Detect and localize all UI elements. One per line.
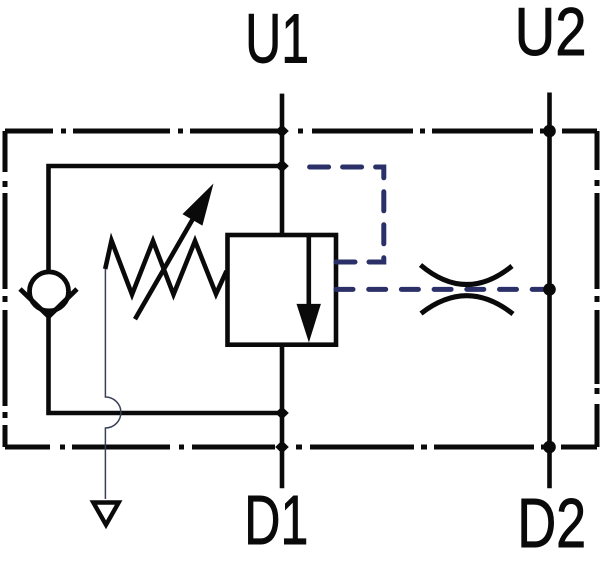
- wire D1 vertical line (valve box bottom to port D1): [280, 345, 285, 489]
- wire check-valve branch: junction to left and down to check valve: [49, 166, 283, 270]
- manifold boundary left edge: [3, 131, 8, 447]
- svg-text:U2: U2: [515, 0, 587, 70]
- drain line (thin) from spring to vent, with hop over branch wire: [105, 269, 120, 499]
- junction diamond at D1/check branch: [275, 407, 289, 420]
- pilot line (dashed) from valve box right side through orifice to U2-D2 line: [336, 287, 550, 292]
- junction diamond at U1/border crossing: [275, 125, 289, 138]
- wire U1 vertical line (port U1 to valve box top): [280, 94, 285, 235]
- manifold boundary bottom edge: [5, 445, 597, 450]
- check valve CV1 ball: [30, 272, 69, 311]
- junction dot at D2/border crossing: [543, 441, 556, 454]
- junction dot at U2-D2/pilot line: [543, 283, 556, 296]
- pilot line (dashed) from U1 junction to valve box right side: [302, 167, 384, 262]
- svg-text:D1: D1: [244, 481, 308, 559]
- wire U2-D2 vertical line: [547, 93, 552, 489]
- adjustment arrow shaft: [135, 214, 196, 320]
- orifice (restriction) lower arc: [421, 296, 513, 314]
- adjustment arrow head: [183, 184, 214, 226]
- orifice (restriction) upper arc: [421, 265, 513, 285]
- adjustable spring: [105, 241, 226, 295]
- svg-text:D2: D2: [517, 484, 586, 562]
- junction diamond at D1/border crossing: [275, 441, 289, 454]
- svg-text:U1: U1: [245, 0, 309, 78]
- wire check-valve bottom to D1 branch: [49, 315, 283, 413]
- check valve CV1 seat: [20, 289, 77, 317]
- junction diamond at U1/pilot/check branch: [275, 160, 289, 173]
- valve flow path arrow (inside box, pointing down): [306, 235, 311, 308]
- manifold boundary right edge: [595, 131, 600, 447]
- valve box U1 (sequence valve body): [228, 235, 337, 345]
- vent triangle (drain to atmosphere): [93, 503, 118, 525]
- manifold boundary (dash-dot border) top edge: [5, 129, 597, 134]
- junction dot at U2/border crossing: [543, 125, 556, 138]
